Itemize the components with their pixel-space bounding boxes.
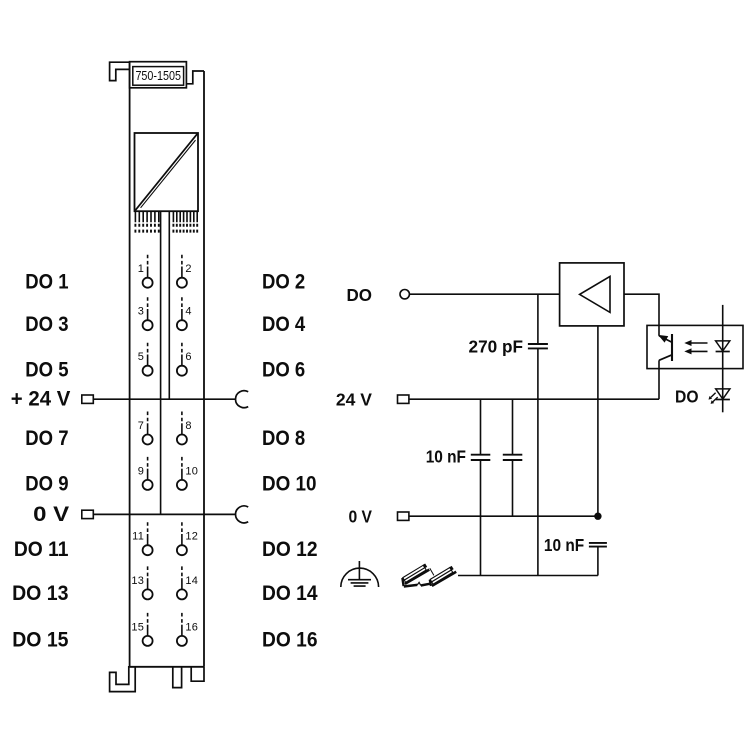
wire emitter to 24V rail xyxy=(658,360,660,399)
diagonal line in box xyxy=(135,134,197,211)
svg-text:DO 6: DO 6 xyxy=(262,358,305,381)
connector comb teeth xyxy=(135,211,197,222)
24V rail wire xyxy=(409,398,659,400)
svg-text:DO: DO xyxy=(347,285,373,305)
terminal pin 9 xyxy=(147,457,149,469)
phototransistor Q1 xyxy=(671,334,673,361)
svg-text:3: 3 xyxy=(138,306,144,318)
earth line xyxy=(458,575,598,577)
svg-text:0 V: 0 V xyxy=(349,506,373,526)
+24V terminal square xyxy=(82,395,94,403)
wire driver output xyxy=(624,294,659,336)
svg-text:15: 15 xyxy=(131,621,144,633)
svg-text:+ 24 V: + 24 V xyxy=(11,388,71,411)
svg-text:DO 3: DO 3 xyxy=(25,313,68,336)
svg-text:6: 6 xyxy=(185,351,191,363)
svg-text:DO 2: DO 2 xyxy=(262,270,305,293)
terminal pin 16 xyxy=(181,613,183,625)
svg-text:DO 9: DO 9 xyxy=(25,473,68,496)
DIN rail symbol xyxy=(402,564,456,586)
terminal pin 14 xyxy=(181,566,183,578)
svg-text:DO 12: DO 12 xyxy=(262,538,318,561)
svg-text:DO 4: DO 4 xyxy=(262,313,305,336)
0V terminal square xyxy=(82,510,94,518)
svg-text:DO 8: DO 8 xyxy=(262,427,305,450)
wire DO to driver xyxy=(409,293,559,295)
comb dotted continuation xyxy=(135,224,197,233)
electronics box U1 xyxy=(135,133,199,211)
ground symbol xyxy=(341,568,379,587)
terminal pin 2 xyxy=(181,255,183,267)
+24V rail wire xyxy=(93,398,236,400)
svg-text:DO 5: DO 5 xyxy=(25,358,68,381)
light arrows xyxy=(691,342,708,344)
terminal pin 11 xyxy=(147,522,149,534)
0V bus contact arc xyxy=(236,506,249,523)
internal bus wire left (to 0V) xyxy=(160,211,162,514)
svg-text:1: 1 xyxy=(138,263,144,275)
terminal pin 15 xyxy=(147,613,149,625)
svg-text:13: 13 xyxy=(131,575,144,587)
terminal pin 7 xyxy=(147,412,149,424)
svg-text:DO 13: DO 13 xyxy=(12,582,68,605)
svg-text:9: 9 xyxy=(138,465,144,477)
terminal pin 10 xyxy=(181,457,183,469)
+24V bus contact arc xyxy=(236,391,249,408)
terminal pin 3 xyxy=(147,297,149,309)
svg-text:2: 2 xyxy=(185,263,191,275)
svg-text:0 V: 0 V xyxy=(33,503,69,526)
svg-text:24 V: 24 V xyxy=(336,389,372,409)
0V rail wire xyxy=(93,513,236,515)
svg-text:DO 15: DO 15 xyxy=(12,629,69,652)
svg-text:4: 4 xyxy=(185,306,191,318)
svg-text:7: 7 xyxy=(138,420,144,432)
module body outline xyxy=(130,62,204,667)
bottom left foot xyxy=(110,667,136,692)
junction dot xyxy=(594,513,601,520)
svg-text:DO 11: DO 11 xyxy=(14,538,69,561)
terminal pin 8 xyxy=(181,412,183,424)
terminal pin 13 xyxy=(147,566,149,578)
svg-text:DO 16: DO 16 xyxy=(262,629,318,652)
driver op-amp box xyxy=(560,263,624,326)
internal bus wire right (to 24V) xyxy=(168,211,170,399)
svg-text:750-1505: 750-1505 xyxy=(135,68,181,83)
svg-text:270 pF: 270 pF xyxy=(469,336,524,356)
terminal pin 12 xyxy=(181,522,183,534)
svg-text:5: 5 xyxy=(138,351,144,363)
wire driver to 0V xyxy=(597,326,599,516)
svg-text:11: 11 xyxy=(132,531,144,543)
svg-text:DO 1: DO 1 xyxy=(25,270,68,293)
terminal pin 1 xyxy=(147,255,149,267)
bottom middle tab xyxy=(173,667,182,688)
bottom right tab xyxy=(191,667,204,681)
svg-text:14: 14 xyxy=(185,575,198,587)
opto LED D1 xyxy=(722,305,724,412)
svg-text:DO 10: DO 10 xyxy=(262,473,317,496)
label box 750-1505 xyxy=(130,62,187,88)
svg-text:DO 14: DO 14 xyxy=(262,582,318,605)
0V rail wire xyxy=(409,515,598,517)
svg-text:10: 10 xyxy=(185,465,198,477)
svg-text:DO 7: DO 7 xyxy=(25,427,68,450)
optocoupler box U2 xyxy=(647,325,743,368)
wire 270pF to earth line xyxy=(537,348,539,575)
terminal pin 5 xyxy=(147,343,149,355)
svg-text:8: 8 xyxy=(185,420,191,432)
top latch xyxy=(110,62,130,80)
capacitor 10 nF right xyxy=(512,399,514,455)
terminal pin 4 xyxy=(181,297,183,309)
svg-text:12: 12 xyxy=(185,531,198,543)
svg-text:10 nF: 10 nF xyxy=(544,535,585,555)
wire branch to 270pF xyxy=(537,294,539,344)
terminal pin 6 xyxy=(181,343,183,355)
svg-text:10 nF: 10 nF xyxy=(426,447,467,467)
svg-text:DO: DO xyxy=(675,387,699,407)
svg-text:16: 16 xyxy=(185,621,198,633)
top right step xyxy=(186,71,204,84)
